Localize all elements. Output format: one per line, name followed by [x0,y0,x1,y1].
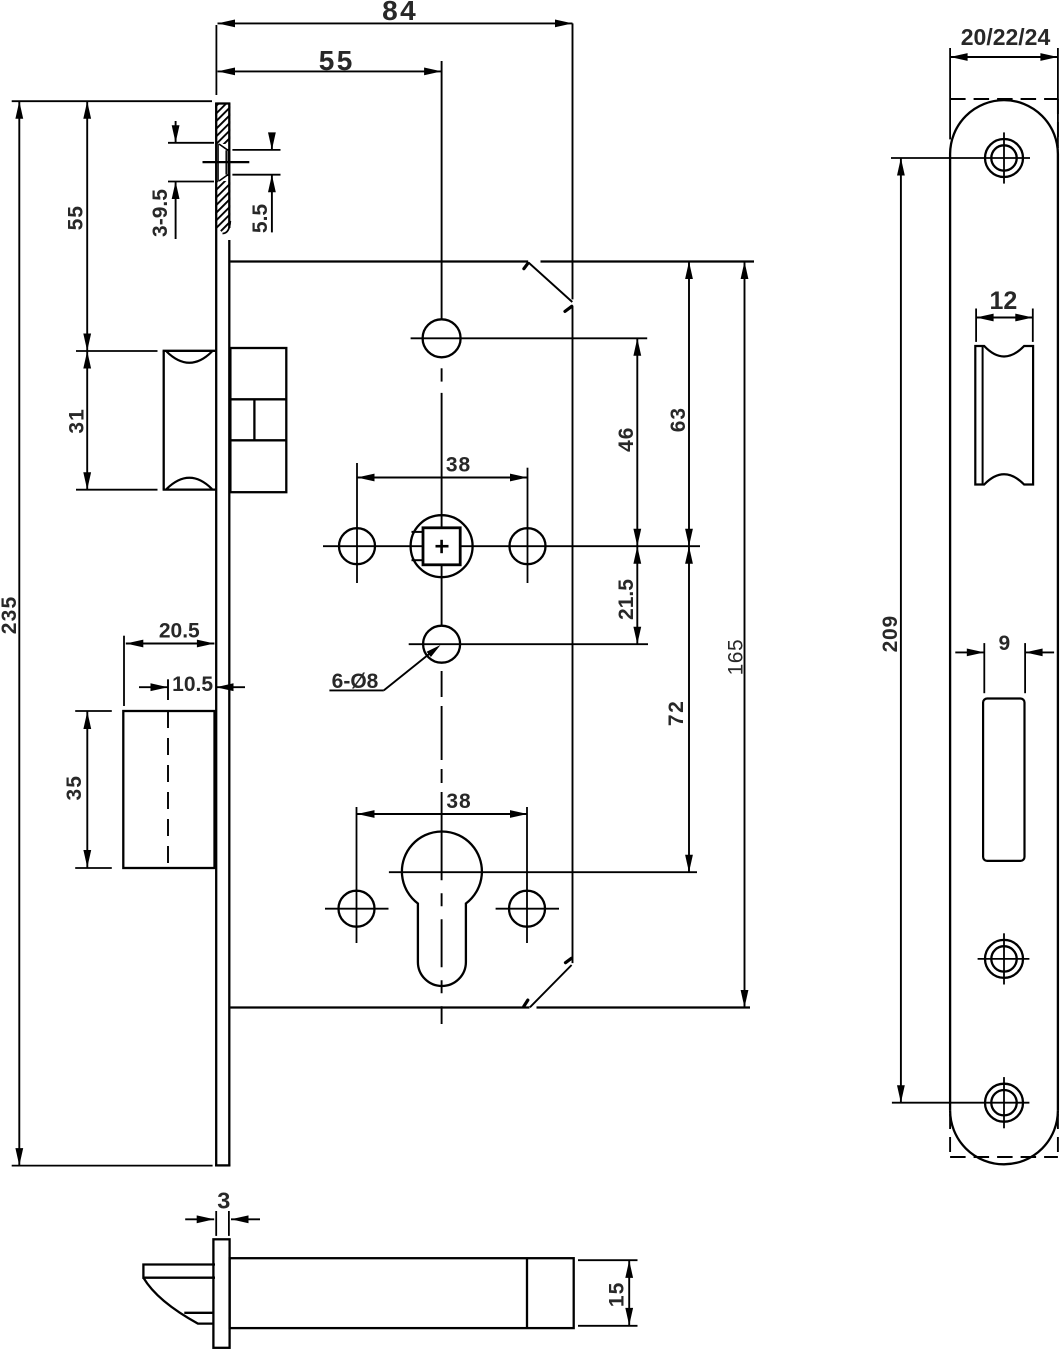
svg-text:55: 55 [64,205,87,230]
svg-text:12: 12 [989,287,1017,315]
svg-text:3: 3 [217,1188,230,1214]
svg-text:10.5: 10.5 [172,673,213,696]
svg-text:5.5: 5.5 [249,204,272,234]
svg-text:209: 209 [879,615,902,652]
svg-text:72: 72 [665,700,688,726]
svg-text:20/22/24: 20/22/24 [961,24,1051,50]
svg-text:31: 31 [66,408,89,433]
svg-text:35: 35 [63,775,86,800]
svg-text:3-9.5: 3-9.5 [149,189,172,237]
svg-text:9: 9 [999,632,1011,655]
svg-text:84: 84 [382,0,418,26]
svg-text:55: 55 [319,45,355,76]
svg-text:38: 38 [446,790,471,813]
svg-text:46: 46 [615,427,638,452]
svg-text:235: 235 [0,596,21,635]
svg-text:21.5: 21.5 [615,579,638,620]
svg-text:165: 165 [725,639,748,676]
svg-text:15: 15 [606,1282,629,1307]
svg-text:20.5: 20.5 [159,620,200,643]
svg-text:63: 63 [667,407,690,432]
svg-text:38: 38 [446,454,471,477]
